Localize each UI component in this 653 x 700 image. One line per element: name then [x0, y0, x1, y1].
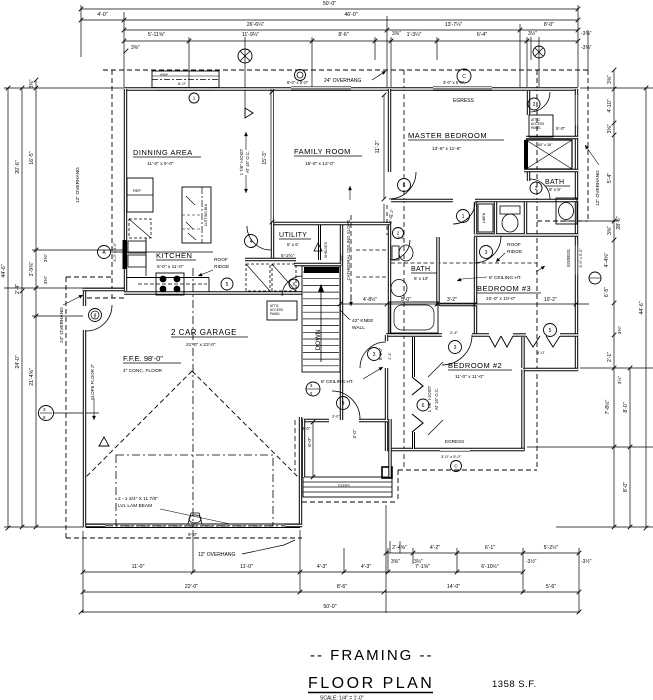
- svg-text:3'-0": 3'-0": [302, 426, 311, 431]
- bedroom3 egress window: [575, 245, 577, 275]
- exterior wall left upper: [124, 89, 127, 291]
- svg-text:11'-9¼": 11'-9¼": [242, 32, 259, 38]
- svg-text:8'-0": 8'-0": [623, 402, 629, 412]
- svg-text:DINNING AREA: DINNING AREA: [133, 148, 193, 157]
- svg-text:5: 5: [549, 328, 552, 334]
- left bubble marker: [39, 406, 54, 421]
- svg-text:7'-1⅝": 7'-1⅝": [415, 564, 430, 570]
- svg-text:3⅜": 3⅜": [607, 124, 613, 133]
- svg-text:ROOF: ROOF: [507, 242, 521, 248]
- svg-text:5'-0": 5'-0": [556, 126, 566, 131]
- svg-text:3⅜": 3⅜": [43, 254, 49, 263]
- window tag C master: [457, 69, 471, 83]
- svg-text:2 - 1 3/4" X 11 7/8": 2 - 1 3/4" X 11 7/8": [118, 496, 158, 502]
- svg-text:F.F.E. 98'-0": F.F.E. 98'-0": [123, 354, 163, 363]
- svg-text:LINEN: LINEN: [482, 212, 486, 223]
- overhang dashed bedroom2 bottom: [398, 469, 537, 471]
- svg-text:6: 6: [422, 403, 425, 409]
- svg-text:5'-11⅝": 5'-11⅝": [148, 32, 165, 38]
- svg-text:2'-1": 2'-1": [607, 352, 613, 362]
- door 4 utility: [247, 226, 271, 250]
- svg-text:20'-6": 20'-6": [15, 160, 21, 173]
- svg-text:AT 16" O.C.: AT 16" O.C.: [245, 151, 250, 173]
- svg-text:13'-7¼": 13'-7¼": [445, 22, 463, 28]
- svg-text:-3⅜": -3⅜": [581, 31, 592, 37]
- tag A left: [98, 246, 111, 259]
- svg-text:42" KNEE: 42" KNEE: [352, 318, 373, 324]
- right dim 8ft segments: [623, 366, 632, 530]
- svg-text:6'-0½": 6'-0½": [339, 254, 344, 266]
- svg-text:9'-5¼": 9'-5¼": [378, 347, 383, 360]
- bottom dim row mid: [81, 563, 526, 574]
- triangle marker dining: [245, 108, 253, 118]
- svg-text:6' x 10': 6' x 10': [414, 276, 428, 281]
- svg-text:WALL: WALL: [352, 325, 365, 331]
- wall master bath divider: [526, 136, 578, 139]
- svg-text:6'-4": 6'-4": [477, 32, 487, 38]
- svg-text:3½": 3½": [616, 376, 623, 385]
- exterior wall garage right: [299, 417, 302, 527]
- svg-text:4'-10": 4'-10": [607, 99, 613, 112]
- svg-text:8: 8: [94, 314, 97, 320]
- svg-text:5'-6": 5'-6": [546, 584, 556, 590]
- svg-text:3'-0" x 5'-0": 3'-0" x 5'-0": [441, 454, 462, 459]
- master vanity sink: [556, 198, 577, 224]
- svg-text:4'-2": 4'-2": [430, 545, 440, 551]
- wall utility top: [271, 222, 343, 225]
- svg-text:11'-2": 11'-2": [375, 140, 381, 153]
- wall family-master: [388, 89, 391, 172]
- svg-text:8'-0": 8'-0": [544, 22, 554, 28]
- exterior wall step right: [523, 368, 578, 371]
- dining window opening in top wall: [156, 88, 214, 91]
- svg-text:13'-6" x 11'-6": 13'-6" x 11'-6": [432, 146, 461, 152]
- roof ridge dashed bedroom3: [391, 262, 537, 264]
- svg-text:3⅜": 3⅜": [29, 79, 35, 88]
- overhang dashed right lower: [536, 70, 538, 470]
- kitchen dishwasher dashed: [129, 219, 151, 238]
- svg-text:2'-4": 2'-4": [15, 284, 21, 294]
- master bath linen: [478, 204, 493, 232]
- svg-text:6'-5": 6'-5": [604, 287, 610, 297]
- washer dryer boxes: [246, 264, 270, 291]
- svg-text:46'-0": 46'-0": [344, 12, 357, 18]
- top grid bubble 1: [238, 49, 252, 63]
- svg-text:50'-0": 50'-0": [323, 1, 336, 7]
- svg-text:3: 3: [373, 352, 376, 358]
- svg-text:1: 1: [462, 214, 465, 220]
- door 2 master bath: [530, 179, 550, 199]
- svg-text:50'-0": 50'-0": [323, 604, 336, 610]
- door 2 bath2: [390, 240, 410, 260]
- svg-text:15'-0" x 12'-0": 15'-0" x 12'-0": [305, 161, 335, 167]
- wall closet b3: [521, 337, 524, 368]
- svg-text:BATH: BATH: [545, 179, 564, 186]
- wall utility left: [271, 222, 274, 258]
- interior dim 9-1: [383, 204, 385, 222]
- svg-text:16'-5": 16'-5": [29, 151, 35, 164]
- family room window: [291, 87, 351, 89]
- svg-text:EGRESS: EGRESS: [566, 249, 571, 267]
- wall bedroom3 west: [474, 237, 477, 335]
- svg-text:4'-8½": 4'-8½": [363, 296, 377, 303]
- svg-text:10'-0" x 10'-0": 10'-0" x 10'-0": [486, 296, 516, 302]
- porch steps: [303, 477, 392, 497]
- svg-text:STEPS: STEPS: [338, 484, 350, 488]
- exterior wall top: [124, 87, 578, 90]
- svg-text:3: 3: [454, 345, 457, 351]
- cathedral ceiling dashed line: [350, 215, 352, 303]
- garage hip roof dashed left: [86, 371, 192, 477]
- svg-text:28'-6": 28'-6": [616, 216, 622, 229]
- bedroom2 closet stub wall top: [412, 337, 415, 377]
- svg-text:9' x 9': 9' x 9': [549, 187, 561, 192]
- svg-text:6'-0": 6'-0": [178, 81, 187, 86]
- svg-text:6'-1": 6'-1": [485, 545, 495, 551]
- window tag double circle family: [295, 70, 306, 81]
- garage hip roof dashed right: [192, 371, 298, 477]
- overhang dashed jog right: [537, 220, 588, 222]
- wall bedroom3 closet bottom: [440, 303, 477, 306]
- stove: [156, 273, 184, 295]
- svg-text:3⅜": 3⅜": [607, 75, 613, 84]
- overhang dashed left upper: [111, 70, 113, 298]
- svg-text:REF: REF: [133, 188, 142, 193]
- svg-text:LVL LAM BEAM: LVL LAM BEAM: [118, 503, 152, 509]
- tag 1 top wall: [189, 93, 199, 103]
- top dimension line row4: [122, 32, 581, 43]
- overhang dashed garage left: [65, 277, 67, 538]
- wall bedroom2 west upper: [385, 335, 388, 341]
- svg-text:BEDROOM #2: BEDROOM #2: [448, 361, 502, 370]
- door 1 master bath hall: [453, 202, 475, 224]
- svg-text:4'-0": 4'-0": [97, 12, 107, 18]
- right bubble window tag: [589, 272, 601, 284]
- overhang dashed right upper: [587, 70, 589, 221]
- exterior wall entry jog: [385, 419, 388, 451]
- door 3 hall-bedroom2 west: [360, 342, 386, 368]
- svg-text:3'-2": 3'-2": [447, 297, 457, 303]
- overhang dashed kitchen step: [87, 297, 124, 299]
- svg-text:5'-0" x 11'-0": 5'-0" x 11'-0": [157, 264, 184, 270]
- svg-text:5: 5: [403, 183, 406, 189]
- bifold closet doors bedroom3 closet: [489, 336, 501, 347]
- door tag kitchen counter: [289, 279, 299, 289]
- svg-text:2'-4⅝": 2'-4⅝": [392, 545, 407, 551]
- stairs enclosure: [302, 266, 340, 372]
- overhang dashed jog left: [66, 276, 112, 278]
- svg-text:FLOOR PLAN: FLOOR PLAN: [308, 675, 434, 692]
- svg-text:22'-0": 22'-0": [185, 584, 198, 590]
- svg-text:3'-0" x 5'-0": 3'-0" x 5'-0": [579, 248, 583, 268]
- wall bedroom23 divider: [386, 333, 442, 336]
- svg-text:5' x 6': 5' x 6': [287, 242, 299, 247]
- svg-text:CUTTING BLK: CUTTING BLK: [204, 203, 208, 226]
- interior dim 15-3 / dining-family line: [270, 89, 272, 222]
- top dimension line 50ft overall: [79, 1, 581, 11]
- door 8 garage left: [86, 305, 112, 331]
- wall stairs top / utility bottom: [294, 263, 341, 266]
- right dim inner segments: [607, 68, 616, 530]
- svg-text:MASTER BEDROOM: MASTER BEDROOM: [408, 131, 487, 140]
- svg-text:11'-0": 11'-0": [132, 564, 145, 570]
- roof overhang dashed outline top: [103, 69, 588, 71]
- cased opening chevron top: [412, 377, 423, 395]
- svg-text:5'-2½": 5'-2½": [281, 252, 295, 259]
- wall linen left: [474, 202, 477, 234]
- svg-text:ROOF: ROOF: [214, 257, 228, 263]
- svg-text:7'-8½": 7'-8½": [604, 400, 611, 415]
- svg-text:5'-2½": 5'-2½": [544, 544, 559, 551]
- exterior wall garage bottom left part: [83, 524, 105, 527]
- svg-text:6'-10½": 6'-10½": [481, 563, 499, 570]
- svg-text:3⅜": 3⅜": [392, 31, 401, 37]
- svg-text:3⅜": 3⅜": [617, 326, 623, 335]
- svg-text:21'-0" x 23'-0": 21'-0" x 23'-0": [186, 342, 216, 348]
- svg-text:1'-3¼": 1'-3¼": [407, 32, 422, 38]
- svg-text:8'-6": 8'-6": [338, 32, 348, 38]
- svg-text:2: 2: [533, 102, 536, 108]
- svg-text:2: 2: [535, 186, 538, 192]
- left dim 16-5 3-9 21-4: [29, 78, 38, 530]
- svg-text:8' CEILING HT.: 8' CEILING HT.: [489, 275, 522, 281]
- wall hall-bath top: [474, 233, 578, 236]
- svg-text:-- FRAMING --: -- FRAMING --: [310, 647, 433, 664]
- roof line dashed garage right: [294, 420, 296, 471]
- exterior wall right upper: [575, 89, 578, 371]
- svg-text:6'-0" x 5'-0": 6'-0" x 5'-0": [287, 80, 309, 85]
- svg-text:1358 S.F.: 1358 S.F.: [492, 679, 537, 690]
- cased opening chevron bottom: [412, 414, 423, 432]
- svg-text:KITCHEN: KITCHEN: [156, 251, 192, 260]
- svg-text:2'-4": 2'-4": [397, 235, 406, 240]
- svg-text:EGRESS: EGRESS: [453, 98, 475, 104]
- stairs down arrow: [320, 290, 322, 362]
- svg-text:5'-0": 5'-0": [401, 297, 411, 303]
- svg-text:60" x 36": 60" x 36": [538, 143, 553, 147]
- door 2 master closet: [530, 92, 550, 112]
- wall bath2 top: [343, 222, 390, 225]
- svg-text:8'-0": 8'-0": [623, 482, 629, 492]
- svg-text:-3½": -3½": [526, 558, 537, 565]
- triangle marker garage left: [99, 437, 109, 446]
- svg-text:44'-6": 44'-6": [639, 301, 645, 314]
- wall master bottom: [391, 199, 453, 202]
- svg-text:26'-6¼": 26'-6¼": [247, 22, 265, 28]
- svg-text:12" OVERHANG: 12" OVERHANG: [75, 167, 81, 203]
- exterior wall bedroom2 bottom: [387, 448, 525, 451]
- svg-text:3⅜": 3⅜": [43, 276, 49, 285]
- svg-text:BATH: BATH: [411, 266, 430, 273]
- svg-text:1 7/8" I-JOIST: 1 7/8" I-JOIST: [239, 148, 244, 175]
- svg-text:10'-2": 10'-2": [544, 297, 557, 303]
- svg-text:3: 3: [485, 250, 488, 256]
- overhang dashed garage bottom: [66, 537, 302, 539]
- svg-text:DOWN: DOWN: [315, 329, 322, 350]
- svg-text:12" OVERHANG: 12" OVERHANG: [595, 170, 601, 206]
- dining bay window: [152, 71, 219, 88]
- top dimension line 26-6 / 13-7 / 8-0: [122, 22, 581, 32]
- svg-text:4'-0": 4'-0": [537, 350, 546, 355]
- svg-text:-3⅜": -3⅜": [581, 45, 592, 51]
- door kitchen-hall: [282, 276, 302, 296]
- wall master closet: [527, 91, 530, 115]
- svg-text:8'-6": 8'-6": [337, 584, 347, 590]
- wall bedroom2 west lower: [385, 368, 388, 420]
- refrigerator: [127, 178, 153, 212]
- master bath window right wall: [575, 95, 577, 125]
- svg-text:EGRESS: EGRESS: [445, 439, 464, 444]
- master bedroom window: [433, 87, 492, 89]
- svg-text:9: 9: [342, 401, 345, 407]
- svg-text:2'-4": 2'-4": [450, 330, 459, 335]
- top grid bubble 2: [533, 46, 545, 58]
- right horizontal extension lines: [580, 87, 653, 89]
- kitchen sink: [128, 241, 146, 253]
- svg-text:2'-4": 2'-4": [388, 352, 392, 360]
- left dim 20-6 / 24-0: [20, 86, 25, 530]
- kitchen counter line: [127, 277, 209, 279]
- utility closet door triangle: [314, 243, 322, 251]
- svg-text:4: 4: [250, 239, 253, 245]
- door 5 master bedroom: [389, 172, 416, 199]
- svg-text:3'-9⅜": 3'-9⅜": [29, 262, 35, 277]
- door 9 entry porch: [332, 391, 360, 419]
- svg-text:SCALE: 1/4" = 1'-0": SCALE: 1/4" = 1'-0": [320, 696, 364, 700]
- master shower: [526, 140, 572, 169]
- svg-text:2 CAR GARAGE: 2 CAR GARAGE: [171, 328, 237, 337]
- bedroom2 egress window: [440, 449, 470, 451]
- svg-text:21'-4⅝": 21'-4⅝": [29, 368, 35, 386]
- kitchen counter dashed front: [138, 283, 207, 285]
- svg-text:SHELVES: SHELVES: [324, 241, 328, 258]
- bath2 tub: [390, 302, 438, 333]
- utility closet wall: [318, 225, 321, 260]
- wall kitchen-garage: [124, 291, 302, 294]
- left dim 44-6 overall: [6, 86, 11, 531]
- top dimension line 4ft + 46ft: [79, 12, 581, 22]
- exterior wall garage bottom right part: [285, 524, 302, 527]
- wall wd alcove: [245, 258, 296, 261]
- roof ridge vertical kitchen-garage: [192, 268, 194, 527]
- exterior wall bedroom2 right: [521, 370, 524, 452]
- bottom dim 50ft: [79, 604, 582, 614]
- svg-text:12" OVERHANG: 12" OVERHANG: [198, 552, 235, 558]
- svg-text:4'-3": 4'-3": [361, 564, 371, 570]
- svg-text:11'-0" x 9'-0": 11'-0" x 9'-0": [147, 161, 174, 167]
- overhang dashed porch: [397, 470, 399, 502]
- exterior wall entry top: [299, 419, 329, 422]
- attic access panel master: [529, 115, 553, 137]
- svg-text:5'-4": 5'-4": [607, 173, 613, 183]
- door 6 bubble hall: [306, 382, 320, 396]
- svg-text:24'-0": 24'-0": [15, 355, 21, 368]
- svg-text:24" OVERHANG: 24" OVERHANG: [59, 307, 65, 343]
- svg-text:PANEL: PANEL: [270, 312, 280, 316]
- svg-text:6'-0": 6'-0": [307, 437, 313, 447]
- svg-text:11'-0": 11'-0": [240, 564, 253, 570]
- wall toilet nook: [494, 202, 497, 234]
- svg-text:AT 16" O.C.: AT 16" O.C.: [434, 388, 439, 410]
- porch left wall lower: [302, 419, 305, 477]
- wall bath2 right: [436, 237, 439, 306]
- door 3 bedroom2: [442, 335, 472, 365]
- svg-text:44'-6": 44'-6": [1, 264, 7, 277]
- svg-text:4'-2": 4'-2": [389, 208, 394, 217]
- door 3 bedroom3: [474, 236, 501, 263]
- svg-text:9'-0": 9'-0": [188, 532, 198, 537]
- right dim 44-6: [639, 86, 648, 531]
- bedroom2 closet stub wall bottom: [412, 432, 415, 449]
- garage ceiling dash-dot rectangle: [116, 455, 273, 526]
- svg-text:15'-3": 15'-3": [262, 151, 268, 164]
- wall stairs right: [340, 222, 343, 420]
- bottom dim row small right: [384, 544, 582, 555]
- top extension lines: [80, 5, 82, 57]
- svg-text:-3½": -3½": [581, 558, 592, 565]
- svg-text:14'-0": 14'-0": [447, 584, 460, 590]
- svg-text:PANEL: PANEL: [531, 126, 541, 130]
- svg-text:WDW: WDW: [160, 72, 168, 76]
- svg-text:11'-0" x 11'-0": 11'-0" x 11'-0": [455, 374, 484, 380]
- svg-text:SLOPE FLOOR 2": SLOPE FLOOR 2": [90, 363, 95, 400]
- dashed interior line master: [403, 70, 405, 467]
- svg-text:3⅜": 3⅜": [131, 45, 140, 51]
- exterior wall garage left upper: [83, 288, 86, 306]
- svg-text:3'-0": 3'-0": [332, 415, 340, 419]
- svg-text:FAMILY ROOM: FAMILY ROOM: [294, 147, 351, 156]
- porch right wall: [388, 419, 391, 477]
- attic access panel hall: [267, 301, 297, 320]
- exterior wall step left: [83, 288, 126, 291]
- svg-text:4" CONC. FLOOR: 4" CONC. FLOOR: [123, 368, 163, 374]
- svg-text:5: 5: [226, 282, 229, 288]
- svg-text:24" OVERHANG: 24" OVERHANG: [324, 78, 361, 84]
- bath2 toilet: [392, 246, 399, 260]
- bath2 sink: [391, 280, 407, 297]
- svg-text:8' CEILING HT.: 8' CEILING HT.: [321, 379, 354, 385]
- roof ridge dashed hall segment: [356, 249, 390, 251]
- bottom dim row totals: [81, 584, 582, 594]
- stairs landing solid: [304, 267, 339, 273]
- exterior wall garage left lower: [83, 330, 86, 527]
- svg-text:UTILITY: UTILITY: [279, 232, 307, 239]
- svg-text:3⅜": 3⅜": [607, 226, 613, 235]
- interior dim row mid: [340, 303, 589, 305]
- svg-text:C: C: [462, 74, 466, 80]
- svg-text:4'-4⅝": 4'-4⅝": [604, 253, 610, 268]
- svg-text:4'-3": 4'-3": [317, 564, 327, 570]
- garage door keystone: [188, 513, 202, 524]
- svg-text:BEDROOM #3: BEDROOM #3: [477, 284, 531, 293]
- wall bath2 left: [388, 222, 391, 335]
- kitchen island: [182, 187, 211, 243]
- left horizontal extension lines: [4, 87, 124, 89]
- svg-text:RIDGE: RIDGE: [507, 249, 522, 255]
- svg-text:RIDGE: RIDGE: [214, 264, 229, 270]
- stair treads: [303, 271, 339, 273]
- kitchen window left wall: [123, 240, 127, 269]
- bottom extension lines: [82, 531, 84, 613]
- porch post: [382, 467, 392, 478]
- shower bottom wall: [524, 169, 578, 172]
- garage door header line: [86, 523, 300, 525]
- svg-text:3½": 3½": [528, 30, 537, 37]
- interior dim 11-2: [383, 95, 385, 199]
- svg-text:3'-0": 3'-0": [352, 429, 357, 439]
- master toilet: [500, 206, 520, 214]
- svg-text:CATHEDRAL CEILING SLOPE: CATHEDRAL CEILING SLOPE: [346, 220, 351, 281]
